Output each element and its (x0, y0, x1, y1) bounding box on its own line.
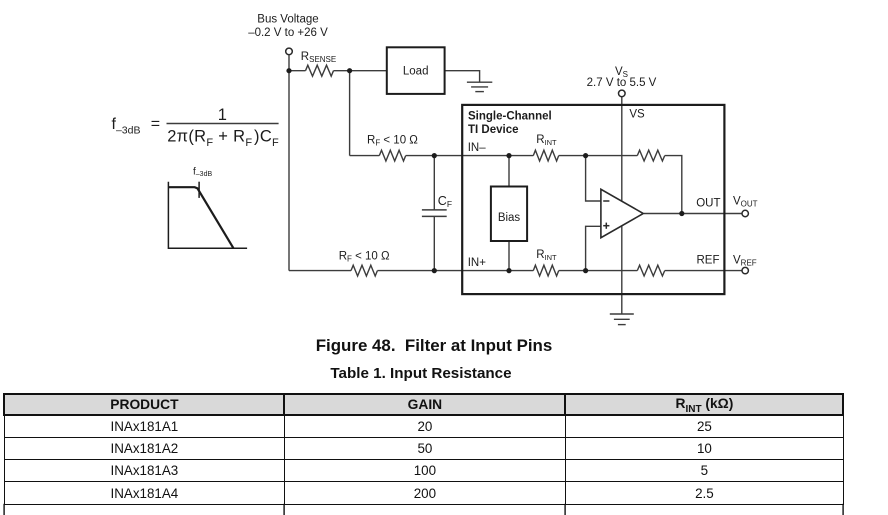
box: Single-Channel TI Device (462, 105, 724, 294)
capacitor CF bottom lead (433, 216, 435, 270)
svg-text:–0.2 V to +26 V: –0.2 V to +26 V (248, 27, 328, 39)
svg-text:RINT: RINT (536, 134, 557, 147)
svg-text:RSENSE: RSENSE (301, 51, 336, 64)
wire: RF lower to RINT lower (through CF node and IN+ pin) (377, 270, 533, 272)
caption: Table 1 (0, 365, 865, 382)
svg-text:CF: CF (438, 194, 452, 209)
svg-text:2.7 V to 5.5 V: 2.7 V to 5.5 V (587, 77, 657, 89)
label: VS supply (587, 66, 657, 89)
ground: VS ground (610, 314, 634, 325)
wire: bias bottom lead (508, 241, 510, 271)
wire: load node down to IN- row (349, 71, 351, 156)
junction: bus tap right (347, 68, 352, 73)
op-amp U1 (601, 189, 643, 237)
resistor RSENSE (306, 65, 334, 76)
wire: RINT lower to REF resistor (559, 270, 638, 272)
resistor RINT lower (533, 265, 558, 276)
wire: REF resistor to VREF terminal (665, 270, 742, 272)
wire: VS supply line down to ground (621, 97, 623, 314)
label: CF (438, 194, 452, 209)
svg-text:Bus Voltage: Bus Voltage (257, 14, 318, 26)
junction: bias bottom node (506, 268, 511, 273)
svg-text:VREF: VREF (733, 254, 757, 267)
label: IN- pin (468, 142, 487, 154)
svg-text:IN+: IN+ (468, 257, 487, 269)
wire: RF upper to RINT upper (through CF node and IN- pin) (406, 155, 534, 157)
wire: IN- row from drop to RF (350, 155, 380, 157)
svg-text:RINT: RINT (536, 249, 557, 262)
svg-text:RF < 10 Ω: RF < 10 Ω (367, 135, 418, 148)
wire: bus node to R_SENSE (289, 70, 306, 72)
junction: CF bottom node (432, 268, 437, 273)
node: VS terminal (619, 90, 626, 97)
table: input resistance (3, 393, 844, 504)
wire: Load to ground (445, 71, 480, 83)
svg-text:OUT: OUT (696, 198, 720, 210)
wire: op-amp non-inverting input (586, 226, 601, 270)
svg-text:f–3dB: f–3dB (193, 167, 212, 179)
ground: load ground (467, 82, 492, 91)
wire: bus node down to IN+ row (288, 71, 290, 271)
label: REF pin (697, 254, 720, 266)
capacitor CF plates (422, 210, 447, 217)
label: RSENSE (301, 51, 336, 64)
wire: feedback resistor to output node (665, 156, 682, 214)
chart: -3dB rolloff sketch (168, 182, 247, 249)
svg-text:=: = (151, 116, 160, 133)
resistor REF feedback lower (637, 265, 664, 276)
label: RF < 10 ohm lower (339, 250, 390, 263)
svg-text:f–3dB: f–3dB (112, 116, 141, 137)
wire: op-amp inverting input (586, 156, 601, 201)
box: Bias (491, 187, 527, 242)
svg-text:IN–: IN– (468, 142, 487, 154)
label: OUT pin (696, 198, 720, 210)
node: VOUT terminal (742, 210, 748, 216)
wire: op-amp output to VOUT terminal (644, 213, 742, 215)
formula: f-3dB = 1/(2pi(RF+RF)CF) (112, 106, 280, 149)
caption: Figure 48 (0, 336, 878, 356)
wire: IN+ row from bus drop to RF lower (289, 270, 351, 272)
svg-text:REF: REF (697, 254, 720, 266)
box: Load (387, 47, 445, 94)
label: VOUT (733, 195, 758, 208)
resistor RF upper (RF < 10 ohm) (379, 150, 405, 161)
svg-text:2π(RF + RF )CF: 2π(RF + RF )CF (167, 127, 279, 149)
node: bus voltage terminal (286, 48, 293, 55)
svg-text:1: 1 (218, 106, 227, 124)
label: RINT upper (536, 134, 557, 147)
svg-text:TI Device: TI Device (468, 124, 519, 136)
capacitor CF top lead (433, 156, 435, 210)
label: RF < 10 ohm upper (367, 135, 418, 148)
label: RINT lower (536, 249, 557, 262)
label: VREF (733, 254, 757, 267)
junction: bias top node (506, 153, 511, 158)
label: VS pin (629, 109, 645, 121)
wire: terminal stub to bus node (288, 55, 290, 71)
resistor feedback upper (637, 150, 664, 161)
junction: non-inverting node (583, 268, 588, 273)
label: f-3dB tick (193, 167, 212, 179)
resistor RF lower (RF < 10 ohm) (351, 265, 377, 276)
svg-text:RF < 10 Ω: RF < 10 Ω (339, 250, 390, 263)
label: Bus Voltage (248, 14, 328, 39)
label: Single-Channel TI Device (468, 111, 552, 136)
svg-text:Bias: Bias (498, 212, 521, 224)
junction: output node (679, 211, 684, 216)
node: VREF terminal (742, 267, 748, 273)
junction: CF top node (432, 153, 437, 158)
label: IN+ pin (468, 257, 487, 269)
resistor RINT upper (533, 150, 558, 161)
wire: RINT upper to feedback resistor (559, 155, 638, 157)
junction: inverting node (583, 153, 588, 158)
junction: bus tap left (286, 68, 291, 73)
svg-text:VOUT: VOUT (733, 195, 758, 208)
svg-text:Load: Load (403, 66, 429, 78)
svg-text:VS: VS (629, 109, 645, 121)
wire: bias top lead (508, 156, 510, 187)
svg-text:Single-Channel: Single-Channel (468, 111, 552, 123)
wire: RSENSE to Load (334, 70, 387, 72)
